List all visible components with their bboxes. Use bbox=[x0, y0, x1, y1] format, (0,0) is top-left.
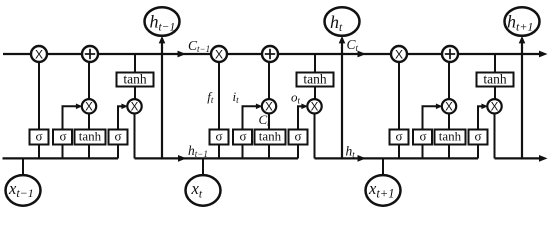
svg-text:tanh: tanh bbox=[259, 129, 282, 144]
svg-text:tanh: tanh bbox=[79, 129, 102, 144]
svg-text:X: X bbox=[35, 47, 43, 61]
svg-text:tanh: tanh bbox=[303, 71, 326, 86]
svg-text:X: X bbox=[395, 47, 403, 61]
svg-text:σ: σ bbox=[239, 128, 246, 143]
svg-text:σ: σ bbox=[114, 128, 121, 143]
svg-text:σ: σ bbox=[294, 128, 301, 143]
svg-text:tanh: tanh bbox=[439, 129, 462, 144]
svg-text:σ: σ bbox=[35, 128, 42, 143]
svg-text:σ: σ bbox=[395, 128, 402, 143]
svg-text:X: X bbox=[491, 101, 499, 113]
svg-text:X: X bbox=[445, 101, 453, 113]
svg-text:tanh: tanh bbox=[123, 71, 146, 86]
svg-text:σ: σ bbox=[215, 128, 222, 143]
svg-text:X: X bbox=[85, 101, 93, 113]
svg-text:X: X bbox=[215, 47, 223, 61]
svg-text:σ: σ bbox=[474, 128, 481, 143]
svg-text:X: X bbox=[131, 101, 139, 113]
svg-text:tanh: tanh bbox=[483, 71, 506, 86]
svg-text:X: X bbox=[311, 101, 319, 113]
svg-text:σ: σ bbox=[419, 128, 426, 143]
svg-text:σ: σ bbox=[59, 128, 66, 143]
